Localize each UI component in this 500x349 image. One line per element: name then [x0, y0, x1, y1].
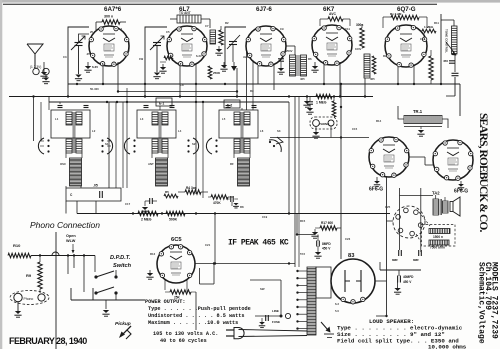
tube V2 6L7 label: [179, 6, 190, 13]
trimmer C: [226, 106, 257, 108]
tube V8 6C5: [157, 245, 195, 283]
wire grid V1: [96, 22, 126, 30]
svg-text:Open: Open: [66, 234, 76, 238]
wire gang link 2: [196, 102, 203, 198]
wire speaker v1: [420, 188, 422, 252]
antenna coil assembly A: [51, 110, 90, 186]
svg-text:R2: R2: [225, 21, 229, 25]
wire phono v4: [83, 256, 85, 293]
stub V8 pins: [165, 280, 187, 292]
text pickup: [115, 321, 131, 327]
tube V5 6Q7 label: [397, 6, 416, 13]
svg-text:TONE CONTROL: TONE CONTROL: [445, 29, 449, 53]
wire tone top: [441, 20, 454, 26]
svg-text:R14: R14: [376, 119, 382, 123]
svg-text:L5: L5: [222, 117, 226, 121]
svg-text:8MF: 8MF: [413, 258, 419, 262]
svg-text:L1: L1: [55, 117, 59, 121]
svg-text:S2: S2: [192, 142, 196, 146]
svg-text:WLW: WLW: [66, 239, 76, 243]
ground V1 left: [30, 62, 48, 78]
svg-text:C23: C23: [345, 237, 351, 241]
wire power mid v: [213, 214, 215, 331]
antenna coupling box above V2: [177, 11, 201, 23]
svg-text:1W: 1W: [139, 57, 144, 61]
wire V2 loop left: [145, 27, 167, 97]
junction volume: [132, 212, 290, 214]
svg-text:Phono: Phono: [24, 297, 34, 301]
trimmer B: [144, 106, 175, 108]
stub V3 pin2: [273, 64, 275, 90]
resistor below B1: [178, 186, 208, 194]
IF transformer T4: [364, 54, 376, 78]
svg-text:IF PEAK 465 KC: IF PEAK 465 KC: [228, 239, 289, 248]
svg-text:1500 n: 1500 n: [433, 235, 443, 239]
volume bus: [77, 213, 390, 215]
resistor volume 2: [166, 211, 185, 221]
speaker socket: [393, 206, 425, 238]
svg-text:TO ANT: TO ANT: [179, 11, 191, 15]
wire assembly tops: [49, 102, 242, 110]
text IF PEAK: [228, 239, 289, 248]
ground 600: [311, 229, 318, 238]
tube V3 6J7 label: [256, 6, 272, 13]
svg-text:40 to 60 cycles: 40 to 60 cycles: [160, 338, 207, 344]
wire phono v long: [55, 232, 57, 349]
wire V8 sub box: [200, 262, 216, 284]
bandswitch arc B-right: [187, 138, 198, 154]
wire left drop 33: [32, 95, 34, 141]
top border line: [3, 3, 437, 5]
field coil dashed box: [422, 225, 456, 247]
svg-text:5Y3: 5Y3: [300, 252, 305, 256]
svg-text:C8: C8: [180, 83, 184, 87]
ground transformer: [321, 322, 334, 338]
capacitor tone: [446, 54, 459, 96]
stub V3 pin1: [257, 66, 259, 84]
tube V4 6K7: [312, 25, 352, 65]
ground 40mfd: [394, 282, 401, 294]
svg-text:6J7-6: 6J7-6: [256, 6, 272, 13]
wire speaker v2: [399, 188, 401, 250]
transformer box: [316, 267, 331, 298]
label speckle group2: [55, 117, 382, 166]
ground mid 307: [303, 97, 310, 108]
resistor right of V4: [356, 23, 364, 48]
stub V2 pin1: [179, 64, 181, 97]
resistor AVC above V4: [320, 12, 350, 26]
wire right v386: [386, 177, 388, 316]
tube V7 6F6: [433, 140, 473, 180]
trimmer A: [58, 102, 89, 108]
phono jack bottom: [10, 291, 49, 305]
antenna: [27, 44, 43, 68]
wire left drop 41: [40, 102, 42, 141]
svg-text:1 MEG: 1 MEG: [424, 25, 434, 29]
wire V6 V7 link: [409, 157, 433, 165]
wire mid right: [296, 214, 315, 236]
tube V8 6C5 label: [171, 237, 182, 243]
capacitor line filter: [259, 315, 269, 328]
svg-text:TR.1: TR.1: [413, 109, 423, 114]
svg-text:R10: R10: [13, 243, 21, 248]
cap 450 right: [443, 59, 455, 63]
svg-text:450 V: 450 V: [322, 247, 331, 251]
svg-text:R15: R15: [300, 219, 306, 223]
wire TR1 to V6: [442, 119, 448, 128]
bus AVC y96: [9, 96, 373, 98]
tone control coil: [445, 26, 458, 56]
svg-text:6.3V: 6.3V: [92, 65, 98, 69]
svg-text:1 MEG: 1 MEG: [316, 101, 327, 105]
svg-text:500K: 500K: [169, 218, 178, 222]
speaker: [450, 197, 460, 216]
svg-text:R9: R9: [26, 273, 32, 278]
bus y102: [49, 101, 289, 103]
svg-text:S1: S1: [105, 142, 109, 146]
field coil block 1: [429, 229, 450, 240]
svg-text:R8: R8: [240, 205, 244, 209]
power cord: [239, 330, 308, 337]
svg-text:6C5: 6C5: [171, 237, 182, 243]
label speckle group3: [125, 202, 391, 313]
wire V8 plate: [195, 214, 295, 265]
switch frame: [71, 288, 145, 300]
variable capacitor C2: [150, 36, 164, 72]
svg-text:C19: C19: [262, 215, 268, 219]
svg-text:C3: C3: [63, 55, 67, 59]
resistor below B2: [208, 195, 233, 205]
ground TR1: [417, 127, 424, 137]
ground phono jack: [14, 302, 21, 318]
stub V1 pin2: [117, 62, 119, 92]
capacitor below B: [141, 198, 157, 213]
svg-text:450 V: 450 V: [403, 280, 412, 284]
variable capacitor C3: [227, 35, 240, 62]
svg-text:450: 450: [443, 59, 448, 63]
bandswitch rotor arc C: [269, 137, 283, 152]
text date: [9, 336, 87, 346]
svg-text:ANT: ANT: [148, 162, 154, 166]
wire coupling box: [170, 19, 210, 28]
ground 219: [215, 46, 222, 55]
stub V4 pin2: [339, 62, 341, 97]
svg-text:6A7*6: 6A7*6: [104, 6, 122, 13]
resistor grid V1: [102, 15, 120, 25]
svg-text:R12: R12: [150, 252, 156, 256]
transformer TR2 label: [432, 191, 440, 196]
rectifier V9 83: [331, 259, 375, 304]
dpdt contacts: [94, 270, 117, 300]
bandswitch arc B-left: [124, 138, 135, 154]
svg-text:83: 83: [348, 253, 355, 259]
wire C1 top: [79, 34, 90, 43]
svg-text:470K: 470K: [213, 201, 221, 205]
output transformer TR2: [433, 199, 448, 215]
svg-text:465: 465: [300, 77, 305, 81]
wire gang link 1: [109, 88, 127, 188]
svg-text:SW: SW: [260, 287, 265, 291]
tube V6 6F6 label: [369, 187, 383, 193]
wire TR1 left: [398, 106, 404, 119]
svg-text:S3: S3: [277, 129, 281, 133]
svg-text:TA2: TA2: [432, 191, 440, 196]
resistor between V2 V3: [219, 26, 223, 45]
svg-text:R17 600: R17 600: [321, 221, 333, 225]
text phono connection: [30, 220, 100, 230]
resistor vol top1: [164, 190, 178, 198]
padder box A: [66, 184, 121, 202]
svg-text:R6: R6: [308, 57, 312, 61]
svg-text:FUSE: FUSE: [272, 320, 280, 324]
capacitor 8mfd: [314, 235, 331, 259]
svg-text:100V: 100V: [355, 47, 362, 51]
box E2: [224, 100, 240, 108]
wire phono v5: [94, 256, 96, 273]
osc coil assembly C: [219, 110, 258, 186]
svg-text:AVC: AVC: [329, 12, 336, 16]
bandswitch arc A-right: [101, 138, 112, 154]
text open wlw: [66, 234, 76, 254]
svg-text:R11: R11: [434, 21, 439, 25]
transformer TR1 label: [413, 109, 423, 114]
svg-text:C13: C13: [420, 37, 426, 41]
svg-text:SEARS, ROEBUCK & CO.: SEARS, ROEBUCK & CO.: [477, 113, 489, 232]
phono jack mid: [310, 117, 337, 129]
tube V1 6A7 label: [104, 6, 122, 13]
ground V2 below-left: [159, 64, 166, 73]
variable capacitor C1: [71, 36, 85, 50]
svg-text:C11: C11: [345, 27, 350, 31]
svg-text:R9: R9: [383, 54, 387, 58]
wire phono mid: [330, 126, 332, 138]
wire vol down: [76, 201, 78, 214]
svg-text:R3: R3: [250, 89, 254, 93]
wire below assemblies: [66, 186, 96, 214]
pickup arrow: [119, 326, 131, 339]
ground antenna: [42, 75, 49, 84]
junction dots top: [67, 83, 442, 103]
cap V3 right: [277, 59, 284, 74]
svg-text:Pickup: Pickup: [115, 321, 131, 327]
svg-text:.05: .05: [86, 52, 90, 56]
capacitor 40mfd: [398, 270, 415, 284]
bus y91: [118, 91, 237, 93]
wire gang link 3: [289, 97, 299, 268]
svg-text:Type . . . . . .Push-pull pent: Type . . . . . .Push-pull pentode: [148, 306, 251, 312]
bus B+ y84: [68, 83, 460, 85]
wire C1 to ground: [78, 46, 80, 75]
text loud speaker: [337, 318, 467, 349]
ground V8 left: [146, 270, 153, 279]
wire y239: [337, 227, 341, 229]
coil between V2 V3: [210, 30, 216, 44]
field coil block 2: [429, 240, 449, 250]
wire bus drop 247: [247, 50, 254, 110]
wire mid h137: [270, 137, 369, 139]
svg-text:C7: C7: [205, 24, 209, 28]
resistor V2 bias: [160, 56, 173, 62]
wire TR2 top: [436, 195, 445, 201]
capacitor vol: [226, 196, 239, 208]
svg-text:6.3: 6.3: [335, 302, 339, 306]
ground V4 below: [311, 62, 318, 72]
wire V8 right down: [196, 214, 214, 337]
wire rect right: [375, 280, 387, 282]
svg-text:C21: C21: [205, 243, 211, 247]
svg-text:R5: R5: [165, 190, 169, 194]
wire V5 top loop: [383, 17, 427, 28]
svg-text:50-400: 50-400: [90, 87, 99, 91]
svg-text:40MFD: 40MFD: [403, 275, 414, 279]
wire bus drop 237: [236, 68, 238, 97]
resistor vert 334: [332, 95, 336, 117]
text power output: [145, 299, 251, 344]
svg-text:L6: L6: [260, 129, 264, 133]
wire bus drop 365: [364, 78, 366, 97]
svg-text:Schematic,Voltage: Schematic,Voltage: [477, 262, 486, 344]
stub V5 pin2: [413, 65, 415, 84]
tube V5 6Q7: [385, 25, 427, 67]
svg-text:PHONO: PHONO: [319, 122, 330, 126]
resistor 1MEG mid: [316, 94, 332, 104]
fuse: [272, 309, 291, 324]
tube V4 6K7 label: [323, 6, 335, 13]
resistor right of V5: [429, 50, 433, 84]
svg-text:8MF: 8MF: [392, 258, 398, 262]
stub V2 pin2: [195, 64, 197, 102]
rectifier V9 83 label: [348, 253, 355, 259]
resistor diag V5: [422, 25, 436, 33]
svg-text:AVC: AVC: [243, 55, 249, 59]
svg-text:POWER OUTPUT:: POWER OUTPUT:: [145, 299, 185, 305]
ground V1 below: [84, 62, 98, 72]
resistor volume 1: [138, 211, 158, 221]
svg-text:Ry 2.2M: Ry 2.2M: [390, 12, 402, 16]
svg-text:Maximum . . . . . .10.0 watts: Maximum . . . . . .10.0 watts: [148, 320, 238, 326]
bandswitch arc C-left: [206, 138, 217, 154]
capacitor mid 310: [306, 97, 313, 115]
antenna terminals: [33, 68, 49, 74]
resistor above V5: [383, 12, 427, 20]
text models block: [477, 262, 499, 344]
svg-text:RF: RF: [230, 162, 234, 166]
ground C2: [153, 73, 160, 79]
capacitor speaker 2: [413, 250, 421, 262]
svg-text:Phono Connection: Phono Connection: [30, 220, 100, 230]
svg-text:D.P.D.T.: D.P.D.T.: [110, 255, 131, 261]
transformer taps: [296, 270, 307, 330]
wire V3 loop left: [225, 27, 246, 68]
power plug: [226, 328, 244, 339]
svg-text:300 n: 300 n: [104, 15, 113, 19]
wire mid v341: [340, 84, 342, 259]
svg-text:LINE: LINE: [272, 309, 279, 313]
svg-text:6.3V: 6.3V: [196, 54, 202, 58]
svg-text:C5: C5: [166, 30, 170, 34]
wire phono v2: [67, 256, 69, 275]
text dpdt: [110, 255, 132, 269]
svg-text:5.0: 5.0: [335, 309, 339, 313]
svg-text:L3: L3: [140, 117, 144, 121]
svg-text:2 MEG: 2 MEG: [141, 218, 152, 222]
wire h316: [376, 315, 388, 317]
tube V1 6A7: [89, 26, 129, 66]
svg-text:105 to 130 volts A.C.: 105 to 130 volts A.C.: [153, 331, 218, 337]
bump phono bus: [52, 252, 59, 256]
svg-text:6F6-G: 6F6-G: [369, 187, 383, 193]
ground phono mid: [312, 127, 319, 139]
tube V7 6F6 label: [454, 189, 468, 195]
svg-text:C25: C25: [385, 205, 391, 209]
ground V7: [458, 181, 464, 190]
transformer TR1: [404, 116, 442, 127]
bus speaker bottom: [380, 262, 421, 270]
tube V6 6F6: [369, 137, 409, 177]
stub V1 pin1: [102, 64, 104, 84]
box E1: [156, 98, 172, 106]
svg-text:L2: L2: [92, 129, 96, 133]
text sears roebuck: [477, 113, 489, 232]
stub V4 pin1: [323, 63, 325, 84]
svg-text:250K: 250K: [213, 71, 221, 75]
svg-text:C17: C17: [125, 202, 131, 206]
power transformer T5: [307, 267, 316, 335]
svg-text:L4: L4: [178, 129, 182, 133]
svg-text:FEBRUARY 28, 1940: FEBRUARY 28, 1940: [9, 336, 87, 346]
svg-text:(1 2.3V): (1 2.3V): [30, 65, 41, 69]
label speckle group1: [63, 21, 439, 93]
capacitor speaker 1: [392, 250, 401, 262]
svg-text:465: 465: [370, 77, 375, 81]
svg-text:R4 3on: R4 3on: [186, 186, 197, 190]
resistor below V8: [165, 290, 196, 300]
wire tone right: [440, 14, 442, 84]
stub V5 pin1: [397, 67, 399, 84]
bandswitch arc A-left: [38, 138, 49, 154]
resistor R9: [26, 256, 42, 294]
wire power left: [250, 280, 282, 317]
ground V6: [374, 177, 380, 187]
svg-text:C15: C15: [352, 127, 358, 131]
wire speaker h1: [387, 196, 434, 222]
svg-text:.05: .05: [93, 184, 98, 188]
svg-text:250V: 250V: [286, 49, 293, 53]
svg-text:10,000 ohms: 10,000 ohms: [428, 344, 467, 349]
IF transformer T3: [290, 55, 307, 76]
wire B+ corner TR1: [459, 84, 461, 116]
wire V1 loop left: [68, 27, 89, 97]
wire switch leads A: [40, 141, 111, 146]
resistor R10: [8, 243, 31, 258]
wire V3 right short: [286, 46, 295, 55]
tube V2 6L7: [167, 26, 207, 66]
svg-text:25: 25: [90, 30, 94, 34]
wire bus drop 49: [48, 97, 50, 103]
svg-text:E-1: E-1: [159, 102, 164, 106]
ground C1: [75, 75, 82, 81]
wire phono v3: [73, 256, 75, 269]
ground C3: [220, 62, 227, 71]
svg-text:Switch: Switch: [113, 263, 132, 269]
arrow ground 234: [231, 62, 237, 71]
tube V3 6J7: [246, 26, 286, 66]
resistor 250K vert: [208, 66, 221, 79]
svg-text:Undistorted . . . . . 8.5 watt: Undistorted . . . . . 8.5 watts: [148, 313, 245, 319]
svg-text:OSC: OSC: [60, 162, 66, 166]
resistor 600: [315, 221, 337, 230]
RF coil assembly B: [137, 110, 176, 186]
